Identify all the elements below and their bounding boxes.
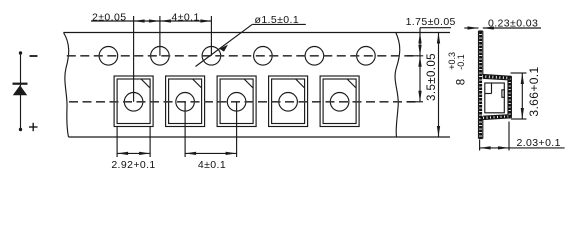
dimension 2.92+0.1 line — [117, 152, 150, 154]
section: tape strip stipple — [479, 32, 482, 139]
sprocket hole 2 — [151, 47, 170, 66]
pocket row centerline — [69, 101, 416, 103]
pocket P2 — [166, 76, 205, 127]
svg-text:4±0.1: 4±0.1 — [198, 159, 226, 171]
dimension 4±0.1 line (top) — [160, 20, 212, 22]
diode D1 bottom terminal dot — [19, 128, 22, 131]
diode D1 top terminal dot — [19, 51, 22, 54]
dimension 2±0.05 line — [91, 20, 134, 22]
dimension 8 +0.3/-0.1 text (rotated) — [447, 52, 468, 85]
extension line pocket2 center — [184, 102, 186, 157]
section: pocket bottom band — [479, 115, 512, 120]
svg-text:4±0.1: 4±0.1 — [171, 12, 199, 24]
svg-text:8: 8 — [456, 79, 468, 85]
dimension 8 +0.3/-0.1 line — [438, 33, 440, 138]
sprocket hole 3 — [202, 47, 221, 66]
right break line — [395, 33, 400, 138]
extension line sprocket hole3 center — [210, 16, 212, 56]
sprocket hole 4 — [254, 47, 273, 66]
dimension 4±0.1 line (bottom) — [185, 152, 237, 154]
sprocket hole 5 — [305, 47, 324, 66]
dimension 3.66+0.1 line — [521, 73, 523, 119]
pocket P1 — [114, 76, 153, 127]
pocket P3 — [217, 76, 256, 127]
dimension 2.03+0.1 extension lines — [479, 140, 481, 151]
diode D1 wire — [20, 53, 22, 130]
section: tape strip outline — [479, 31, 483, 139]
sprocket hole 6 — [357, 47, 376, 66]
diode D1 anode triangle — [13, 85, 27, 95]
dimension 3.66+0.1 ticks — [511, 72, 527, 74]
svg-text:ø1.5±0.1: ø1.5±0.1 — [255, 14, 300, 26]
svg-text:2.92+0.1: 2.92+0.1 — [111, 159, 155, 171]
extension line sprocket hole2 center — [159, 16, 161, 56]
sprocket row centerline — [67, 55, 418, 57]
svg-text:2±0.05: 2±0.05 — [92, 12, 126, 24]
minus polarity label — [30, 55, 38, 57]
extension line pocket1 inner left — [116, 127, 118, 157]
dimension 1.75±0.05 bracket — [420, 27, 451, 29]
svg-text:2.03+0.1: 2.03+0.1 — [517, 137, 561, 149]
section: pocket top band — [483, 75, 512, 80]
carrier tape top edge — [64, 32, 451, 34]
sprocket hole 1 — [99, 47, 118, 66]
extension line pocket1 inner right — [149, 127, 151, 157]
svg-text:3.66+0.1: 3.66+0.1 — [527, 66, 541, 116]
carrier tape bottom edge — [69, 136, 451, 138]
dimension ø1.5±0.1 leader — [196, 24, 253, 66]
extension line pocket1 center — [133, 16, 135, 102]
svg-text:0.23±0.03: 0.23±0.03 — [488, 17, 538, 29]
dimension 0.23±0.03 arrows — [464, 27, 478, 29]
left break line — [64, 33, 69, 138]
pocket P5 — [320, 76, 359, 127]
svg-text:-0.1: -0.1 — [456, 54, 466, 70]
diode D1 cathode bar — [13, 83, 28, 85]
section: component in pocket — [485, 83, 505, 113]
dimension 2.03+0.1 line — [480, 147, 509, 149]
dimension 3.5±0.05 line — [419, 56, 421, 102]
extension line pocket3 center — [236, 102, 238, 157]
svg-text:3.5±0.05: 3.5±0.05 — [426, 53, 438, 101]
pocket P4 — [269, 76, 308, 127]
section: pocket right band — [508, 76, 511, 118]
plus polarity label — [29, 123, 38, 131]
dimension 1.75±0.05 line — [419, 28, 421, 33]
svg-text:1.75±0.05: 1.75±0.05 — [406, 16, 456, 28]
